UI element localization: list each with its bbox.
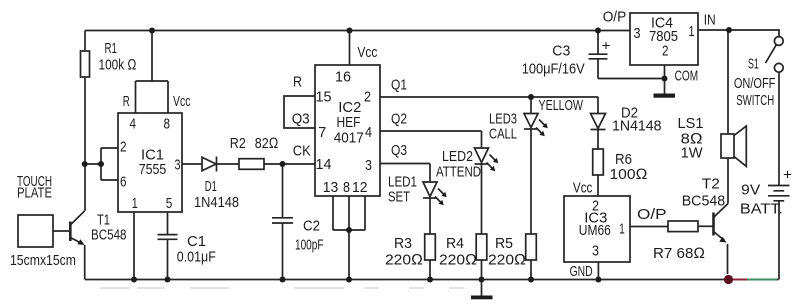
svg-text:R2: R2 (230, 135, 246, 152)
svg-text:+: + (783, 167, 792, 184)
svg-text:LED2: LED2 (442, 148, 473, 165)
svg-text:220Ω: 220Ω (439, 252, 477, 269)
svg-text:6: 6 (120, 174, 127, 191)
svg-text:100μF/16V: 100μF/16V (522, 61, 585, 78)
svg-text:S1: S1 (748, 56, 759, 73)
svg-text:SET: SET (388, 189, 410, 206)
svg-text:7555: 7555 (139, 161, 167, 178)
svg-text:R5: R5 (495, 235, 513, 252)
svg-text:BATT.: BATT. (740, 201, 783, 218)
svg-text:3: 3 (634, 25, 641, 42)
svg-text:82Ω: 82Ω (255, 135, 278, 152)
svg-text:CK: CK (293, 143, 311, 160)
svg-text:HEF: HEF (337, 114, 361, 131)
svg-text:100pF: 100pF (295, 237, 324, 254)
svg-text:R: R (123, 93, 130, 110)
svg-text:2: 2 (662, 43, 669, 60)
svg-text:5: 5 (166, 195, 173, 212)
svg-text:Q3: Q3 (391, 142, 407, 159)
svg-text:O/P: O/P (637, 206, 667, 223)
svg-text:Vcc: Vcc (573, 180, 593, 197)
svg-text:Vcc: Vcc (357, 44, 377, 61)
svg-text:100Ω: 100Ω (610, 166, 648, 183)
svg-text:CALL: CALL (489, 126, 517, 143)
svg-text:COM: COM (675, 68, 699, 85)
svg-text:220Ω: 220Ω (488, 252, 526, 269)
svg-text:D1: D1 (205, 178, 217, 195)
svg-text:PLATE: PLATE (17, 185, 52, 202)
svg-text:7: 7 (318, 124, 326, 141)
svg-text:BC548: BC548 (682, 193, 726, 210)
svg-text:R1: R1 (105, 40, 118, 57)
svg-text:4: 4 (365, 124, 372, 141)
svg-text:15: 15 (316, 89, 332, 106)
svg-text:C3: C3 (552, 43, 570, 60)
svg-text:12: 12 (352, 179, 368, 196)
svg-text:1: 1 (132, 195, 138, 212)
svg-text:13: 13 (323, 179, 339, 196)
svg-text:BC548: BC548 (91, 227, 127, 244)
svg-text:SWITCH: SWITCH (736, 92, 774, 109)
svg-text:4: 4 (130, 116, 137, 133)
svg-text:2: 2 (120, 139, 127, 156)
svg-text:1: 1 (689, 23, 695, 40)
svg-text:9V: 9V (741, 182, 760, 199)
svg-text:100k Ω: 100k Ω (99, 57, 137, 74)
svg-text:Vcc: Vcc (173, 93, 191, 110)
svg-text:2: 2 (364, 89, 371, 106)
svg-text:O/P: O/P (603, 9, 627, 26)
svg-text:YELLOW: YELLOW (539, 97, 584, 114)
svg-text:16: 16 (335, 69, 351, 86)
svg-text:3: 3 (592, 243, 599, 260)
svg-text:4017: 4017 (334, 130, 364, 147)
svg-text:1N4148: 1N4148 (612, 118, 662, 135)
svg-text:15cmx15cm: 15cmx15cm (10, 252, 76, 269)
svg-text:T2: T2 (702, 176, 720, 193)
svg-text:R: R (293, 74, 302, 91)
svg-text:GND: GND (570, 263, 593, 280)
svg-text:0.01μF: 0.01μF (177, 249, 216, 266)
svg-text:UM66: UM66 (579, 222, 611, 239)
svg-text:Q3: Q3 (292, 111, 310, 128)
svg-text:8: 8 (343, 179, 350, 196)
svg-text:R3: R3 (394, 235, 412, 252)
svg-text:1W: 1W (681, 145, 704, 162)
svg-text:R4: R4 (446, 235, 464, 252)
svg-text:LS1: LS1 (678, 115, 704, 132)
svg-text:ATTEND: ATTEND (436, 164, 481, 181)
svg-text:1N4148: 1N4148 (194, 194, 239, 211)
svg-text:1: 1 (619, 221, 625, 238)
svg-text:220Ω: 220Ω (385, 252, 423, 269)
svg-text:ON/OFF: ON/OFF (734, 75, 776, 92)
svg-text:+: + (602, 37, 611, 53)
svg-text:C1: C1 (187, 233, 206, 250)
svg-text:R7 68Ω: R7 68Ω (653, 245, 705, 262)
svg-text:8: 8 (164, 116, 171, 133)
svg-text:Q1: Q1 (391, 77, 407, 94)
svg-text:Q2: Q2 (391, 111, 407, 128)
svg-text:14: 14 (316, 156, 332, 173)
svg-text:IN: IN (704, 11, 716, 28)
svg-text:3: 3 (365, 157, 372, 174)
svg-text:3: 3 (175, 157, 181, 174)
svg-text:C2: C2 (303, 218, 320, 235)
